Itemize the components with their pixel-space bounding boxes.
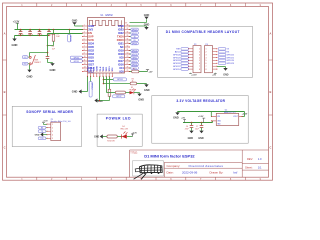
capacitor C1 1uF xyxy=(46,46,56,63)
+3.3V power flag top left xyxy=(13,20,20,29)
svg-text:GND: GND xyxy=(223,75,228,77)
svg-text:11: 11 xyxy=(84,59,86,61)
U1 right net label tags lower group xyxy=(130,49,139,70)
svg-text:3V3: 3V3 xyxy=(88,27,93,31)
svg-text:35: 35 xyxy=(126,35,128,37)
svg-text:4: 4 xyxy=(52,135,53,137)
resistor F1 on 5V line xyxy=(130,69,148,73)
section box: POWER LED xyxy=(97,114,142,146)
resistor R3 470R xyxy=(107,135,122,143)
svg-text:GND: GND xyxy=(72,89,78,93)
svg-text:CMD: CMD xyxy=(97,66,99,71)
svg-text:D1 MINI form factor ESP32: D1 MINI form factor ESP32 xyxy=(144,154,195,159)
U1 right net label tags upper group xyxy=(130,28,139,45)
svg-text:3.3V VOLTAGE REGULATOR: 3.3V VOLTAGE REGULATOR xyxy=(176,99,225,103)
connector H1 (P3) body xyxy=(193,44,201,73)
svg-text:TXD0: TXD0 xyxy=(117,34,124,38)
wire bottom pin8 down xyxy=(109,77,111,90)
ground left arrow mid xyxy=(94,98,103,102)
svg-text:TITLE:: TITLE: xyxy=(130,151,138,154)
svg-text:GPIO25: GPIO25 xyxy=(173,57,181,59)
svg-text:IO16: IO16 xyxy=(118,62,124,66)
svg-text:32: 32 xyxy=(126,45,128,47)
svg-text:IO19: IO19 xyxy=(118,48,124,52)
svg-text:C2: C2 xyxy=(19,30,21,32)
svg-text:GND: GND xyxy=(144,14,150,17)
svg-text:GND: GND xyxy=(72,20,78,23)
H1 pin 6 xyxy=(188,63,200,65)
svg-text:IO35: IO35 xyxy=(88,45,94,49)
wire H2 pin7 to ground xyxy=(217,67,225,69)
svg-text:GPIO21: GPIO21 xyxy=(226,57,234,59)
svg-text:1: 1 xyxy=(199,49,200,51)
svg-text:SVN: SVN xyxy=(88,38,93,42)
svg-text:4: 4 xyxy=(206,57,207,59)
net tag RST xyxy=(176,48,188,51)
svg-text:Sheet:: Sheet: xyxy=(245,166,253,170)
svg-text:38: 38 xyxy=(126,24,128,26)
svg-text:A: A xyxy=(4,32,6,36)
svg-text:+5V: +5V xyxy=(212,75,216,77)
+3.3V flag above P1 pin1 xyxy=(42,121,48,125)
svg-text:REV:: REV: xyxy=(247,157,253,161)
svg-text:GPIO26: GPIO26 xyxy=(173,54,181,56)
svg-text:ADC0: ADC0 xyxy=(175,50,181,53)
ground under C1 xyxy=(50,63,56,73)
capacitor C6 47uF xyxy=(185,122,194,131)
net tag RX on P1 xyxy=(38,126,47,129)
svg-text:6: 6 xyxy=(199,63,200,65)
svg-text:NC: NC xyxy=(120,45,124,49)
svg-text:13: 13 xyxy=(84,66,86,68)
section box: SONOFF SERIAL HEADER xyxy=(12,106,81,146)
svg-text:Company:: Company: xyxy=(167,164,181,168)
+5V power flag second xyxy=(198,116,205,123)
svg-text:9: 9 xyxy=(84,52,85,54)
net tag TX on P1 xyxy=(38,130,47,133)
svg-text:RST: RST xyxy=(176,49,181,51)
svg-text:Date:: Date: xyxy=(167,170,174,174)
svg-text:+3.3V: +3.3V xyxy=(198,116,204,118)
svg-text:POWER LED: POWER LED xyxy=(106,116,131,120)
resistor R5 vertical xyxy=(99,89,111,101)
svg-text:5: 5 xyxy=(84,38,85,40)
ground under C7 xyxy=(198,131,204,140)
sheet frame outer border xyxy=(3,3,273,180)
svg-text:GPIO21: GPIO21 xyxy=(132,43,138,45)
vertical net tag below U1 xyxy=(89,77,93,98)
U1 right pins xyxy=(117,24,130,73)
svg-text:VOUT: VOUT xyxy=(233,116,238,118)
svg-text:IO32: IO32 xyxy=(88,48,94,52)
svg-text:GND: GND xyxy=(188,137,194,140)
svg-text:RST: RST xyxy=(24,57,27,59)
svg-text:kxf: kxf xyxy=(234,170,238,174)
svg-text:C5: C5 xyxy=(48,30,50,32)
H2 pin 1 xyxy=(206,48,218,50)
svg-text:GPIO22: GPIO22 xyxy=(132,33,138,35)
svg-text:C: C xyxy=(269,146,271,150)
svg-text:IO5: IO5 xyxy=(120,55,125,59)
H2 pin 2 xyxy=(206,51,218,53)
LED D4 YELLOW xyxy=(120,126,132,139)
svg-text:2: 2 xyxy=(199,51,200,53)
+3.3V flag below H1 xyxy=(189,73,197,77)
svg-text:IO4: IO4 xyxy=(120,66,125,70)
P1 pin 3 xyxy=(47,131,54,133)
node EN junction xyxy=(47,33,55,47)
resistor R4 1k xyxy=(130,78,146,84)
svg-text:26: 26 xyxy=(126,66,128,68)
svg-text:12: 12 xyxy=(84,63,86,65)
svg-text:EN: EN xyxy=(88,31,92,35)
net tag GPIO23 xyxy=(218,62,234,65)
svg-text:29: 29 xyxy=(126,56,128,58)
svg-text:R3 470R: R3 470R xyxy=(107,141,115,143)
ground regulator left xyxy=(173,112,180,120)
+5V power flag xyxy=(181,118,186,123)
svg-text:C3: C3 xyxy=(29,30,31,32)
svg-text:GND: GND xyxy=(27,74,33,78)
svg-text:Drawn By:: Drawn By: xyxy=(210,170,224,174)
H2 pin 6 xyxy=(206,63,218,65)
net tag ADC0 xyxy=(175,50,189,53)
net tag GPIO0 xyxy=(113,78,126,81)
svg-text:36: 36 xyxy=(126,31,128,33)
svg-text:GND: GND xyxy=(173,117,179,120)
ground flag top right #2 xyxy=(130,24,150,30)
svg-text:14: 14 xyxy=(84,70,86,72)
svg-text:GND: GND xyxy=(94,137,99,139)
capacitor C3 100nF xyxy=(28,29,34,37)
wire reset button net xyxy=(30,52,48,54)
net tag GPIO22 xyxy=(218,53,234,56)
svg-text:100nF: 100nF xyxy=(28,34,34,36)
P1 pin 2 xyxy=(47,127,54,129)
ground under R4 xyxy=(144,84,150,92)
svg-text:10: 10 xyxy=(84,56,86,58)
svg-text:3: 3 xyxy=(52,131,53,133)
svg-text:34: 34 xyxy=(126,38,128,40)
svg-text:39: 39 xyxy=(125,23,127,25)
net tag GPIO26 xyxy=(173,53,189,56)
svg-text:10uF: 10uF xyxy=(195,128,199,130)
net tag RST upper xyxy=(22,56,29,59)
regulator U2 AMS1117-3.3 xyxy=(211,109,243,125)
net tag GPIO15 left of U1 xyxy=(70,60,82,63)
wire bottom pin1 to ground xyxy=(81,77,87,92)
svg-text:A: A xyxy=(269,32,271,36)
svg-text:GPIO27: GPIO27 xyxy=(173,66,181,68)
svg-text:GND: GND xyxy=(88,24,94,28)
net tag RX xyxy=(218,50,230,53)
svg-text:2: 2 xyxy=(52,127,53,129)
svg-text:GND: GND xyxy=(12,43,18,47)
svg-text:Overmind Associates: Overmind Associates xyxy=(189,164,224,168)
svg-text:IO25: IO25 xyxy=(88,55,94,59)
svg-text:8: 8 xyxy=(84,49,85,51)
P1 pin 4 xyxy=(47,134,54,136)
svg-text:8: 8 xyxy=(199,69,200,71)
wire regulator top rail xyxy=(178,112,245,117)
svg-text:GPIO23: GPIO23 xyxy=(132,29,138,31)
svg-text:33: 33 xyxy=(126,42,128,44)
GND flag above U1 left xyxy=(72,20,83,26)
svg-text:+5V: +5V xyxy=(149,71,153,73)
svg-text:31: 31 xyxy=(126,49,128,51)
svg-text:C4: C4 xyxy=(38,30,40,32)
net tag GPIO14 xyxy=(173,68,189,71)
svg-text:7: 7 xyxy=(84,45,85,47)
net tag GPIO25 xyxy=(173,56,189,59)
U1 bottom pins xyxy=(86,66,114,77)
svg-text:5: 5 xyxy=(199,60,200,62)
svg-text:ESP32: ESP32 xyxy=(106,15,114,17)
title block xyxy=(130,150,269,177)
svg-text:IO27: IO27 xyxy=(88,62,94,66)
svg-text:IO23: IO23 xyxy=(118,27,124,31)
svg-text:IO33: IO33 xyxy=(88,52,94,56)
+5V flag below H2 xyxy=(212,73,216,77)
svg-text:+3.3V: +3.3V xyxy=(132,133,138,135)
svg-text:3: 3 xyxy=(84,31,85,33)
svg-text:100nF: 100nF xyxy=(37,34,43,36)
capacitor C5 100nF xyxy=(47,29,53,37)
svg-text:GPIO18: GPIO18 xyxy=(132,54,138,56)
svg-text:5: 5 xyxy=(206,60,207,62)
svg-text:RST: RST xyxy=(24,63,27,65)
svg-text:RXD0: RXD0 xyxy=(117,38,124,42)
svg-text:GPIO12: GPIO12 xyxy=(91,83,93,90)
svg-text:F1: F1 xyxy=(133,69,135,71)
net tag GPIO2 xyxy=(113,95,125,98)
svg-text:6: 6 xyxy=(206,63,207,65)
svg-text:GPIO19: GPIO19 xyxy=(226,60,234,62)
net tag GPIO32 xyxy=(173,62,189,65)
wire regulator input rail xyxy=(183,121,213,123)
section box: D1 MINI COMPATIBLE HEADER LAYOUT xyxy=(158,26,253,77)
svg-text:IO22: IO22 xyxy=(118,31,124,35)
H1 pin 5 xyxy=(188,60,200,62)
svg-text:47uF: 47uF xyxy=(185,128,189,130)
H2 pin 7 xyxy=(206,66,218,68)
svg-text:25: 25 xyxy=(126,70,128,72)
push button SW1 RESET xyxy=(29,53,41,70)
svg-text:D4: D4 xyxy=(122,126,124,128)
svg-text:6: 6 xyxy=(84,42,85,44)
svg-text:7: 7 xyxy=(199,66,200,68)
H1 pin 2 xyxy=(188,51,200,53)
net tag GPIO19 xyxy=(218,59,234,62)
svg-text:+3.3V: +3.3V xyxy=(242,114,248,116)
svg-text:CLK: CLK xyxy=(100,66,102,71)
svg-text:GPIO32: GPIO32 xyxy=(173,63,181,65)
svg-text:1.0: 1.0 xyxy=(258,157,262,161)
H1 pin 4 xyxy=(188,57,200,59)
ground flag top right #1 xyxy=(130,14,150,23)
capacitor C4 100nF xyxy=(37,29,43,37)
svg-text:7: 7 xyxy=(206,66,207,68)
frame zone ticks and labels xyxy=(3,3,273,181)
svg-text:GPIO17: GPIO17 xyxy=(132,61,138,63)
svg-text:27: 27 xyxy=(126,63,128,65)
svg-text:IO21: IO21 xyxy=(118,41,124,45)
svg-text:GND: GND xyxy=(144,89,150,92)
svg-text:37: 37 xyxy=(126,28,128,30)
svg-text:GPIO33: GPIO33 xyxy=(173,60,181,62)
title block fields xyxy=(167,157,263,174)
wire regulator gnd into rail xyxy=(210,112,212,117)
svg-text:4: 4 xyxy=(199,57,200,59)
H2 pin 5 xyxy=(206,60,218,62)
svg-text:2: 2 xyxy=(84,28,85,30)
svg-text:5: 5 xyxy=(52,138,53,140)
svg-text:4: 4 xyxy=(84,35,85,37)
svg-text:GPIO13: GPIO13 xyxy=(74,57,80,59)
svg-text:RESET: RESET xyxy=(34,62,41,64)
ground under C6 xyxy=(188,131,194,140)
svg-text:IO17: IO17 xyxy=(118,59,124,63)
H2 pin 4 xyxy=(206,57,218,59)
svg-text:GPIO2: GPIO2 xyxy=(116,96,122,98)
svg-text:SONOFF SERIAL HEADER: SONOFF SERIAL HEADER xyxy=(26,110,73,114)
ground under caps xyxy=(12,39,16,42)
svg-text:GND: GND xyxy=(50,68,56,72)
ground left arrow bottom pin1 xyxy=(79,89,82,93)
LED D2 YELLOW xyxy=(126,87,140,94)
antenna meander of U1 xyxy=(89,20,121,28)
svg-text:GPIO14: GPIO14 xyxy=(173,69,181,71)
svg-text:GPIO35: GPIO35 xyxy=(69,35,71,42)
wire 3.3V rail xyxy=(15,29,83,31)
svg-text:D1 MINI COMPATIBLE HEADER LAYO: D1 MINI COMPATIBLE HEADER LAYOUT xyxy=(166,30,240,34)
ground under SW1 xyxy=(27,70,31,73)
svg-text:IO0: IO0 xyxy=(41,138,44,140)
ground below H2 xyxy=(223,68,228,77)
svg-text:GPIO0: GPIO0 xyxy=(117,79,123,81)
svg-text:GND: GND xyxy=(35,134,40,136)
svg-text:GND: GND xyxy=(118,24,124,28)
svg-text:28: 28 xyxy=(126,59,128,61)
svg-text:8: 8 xyxy=(206,69,207,71)
svg-text:GPIO5: GPIO5 xyxy=(132,57,137,59)
svg-text:GND: GND xyxy=(198,137,204,140)
resistor R6 xyxy=(115,91,125,94)
connector H2 (P4) body xyxy=(205,44,213,73)
svg-text:GND: GND xyxy=(98,101,103,103)
capacitor C7 10uF xyxy=(195,122,203,131)
svg-text:TX: TX xyxy=(134,36,136,38)
net tag GPIO21 xyxy=(218,56,234,59)
H2 pin 8 xyxy=(206,69,218,71)
connector P1 serial header xyxy=(51,119,71,141)
svg-text:GPIO22: GPIO22 xyxy=(226,54,234,56)
svg-text:2: 2 xyxy=(206,51,207,53)
U1 left pins xyxy=(82,24,94,73)
svg-text:1: 1 xyxy=(52,124,53,126)
H1 pin 8 xyxy=(188,69,200,71)
wire EN net xyxy=(48,34,83,57)
sheet frame inner border xyxy=(7,7,269,178)
section box: 3.3V VOLTAGE REGULATOR xyxy=(152,96,248,144)
svg-text:1/1: 1/1 xyxy=(258,166,262,170)
svg-text:RX: RX xyxy=(134,40,136,42)
svg-text:GPIO23: GPIO23 xyxy=(226,63,234,65)
net tag GPIO13 left of U1 xyxy=(70,56,82,59)
svg-text:100nF: 100nF xyxy=(18,34,24,36)
ground left arrow on P1 pin4 xyxy=(35,132,47,136)
H2 pin 3 xyxy=(206,54,218,56)
svg-text:B: B xyxy=(269,90,271,94)
svg-text:IO18: IO18 xyxy=(118,52,124,56)
svg-text:1: 1 xyxy=(206,49,207,51)
resistor R1 10K pullup xyxy=(52,29,60,46)
net tag GPIO27 xyxy=(173,65,189,68)
svg-text:2022-09-06: 2022-09-06 xyxy=(182,170,198,174)
svg-text:+3.3V: +3.3V xyxy=(191,75,197,77)
wire bottom pin6 down xyxy=(103,77,131,85)
net label tag vertical on 3.3V rail xyxy=(68,29,71,42)
P1 pin 1 xyxy=(47,124,54,126)
wire bottom pin7 down to LED row xyxy=(106,77,108,93)
svg-text:GND: GND xyxy=(138,99,144,102)
+5V power flag right of U1 xyxy=(146,70,153,74)
+3.3V flag power led xyxy=(131,133,137,137)
wire bottom pin5 to ground xyxy=(97,77,100,101)
H1 pin 1 xyxy=(188,48,200,50)
ground right of LED D2 xyxy=(137,93,144,102)
svg-text:SVP: SVP xyxy=(88,34,93,38)
svg-text:1: 1 xyxy=(84,24,85,26)
ground left arrow power led xyxy=(94,134,107,138)
svg-text:3: 3 xyxy=(199,54,200,56)
wire LED row xyxy=(107,92,116,94)
svg-text:IO0: IO0 xyxy=(120,69,125,73)
svg-text:30: 30 xyxy=(126,52,128,54)
svg-text:IO26: IO26 xyxy=(88,59,94,63)
svg-text:IO34: IO34 xyxy=(88,41,94,45)
op-amp U1 ESP32 module body xyxy=(88,15,125,73)
svg-text:GPIO15: GPIO15 xyxy=(74,61,80,63)
svg-text:GPIO19: GPIO19 xyxy=(132,50,138,52)
H1 pin 3 xyxy=(188,54,200,56)
svg-text:3: 3 xyxy=(206,54,207,56)
svg-text:B: B xyxy=(4,90,6,94)
svg-text:YELLOW: YELLOW xyxy=(120,129,128,131)
wire caps ground bus xyxy=(15,36,50,39)
net tag IO0 on P1 xyxy=(38,137,47,140)
H1 pin 7 xyxy=(188,66,200,68)
P1 pin 5 xyxy=(47,138,54,140)
net tag RST lower xyxy=(22,62,29,65)
capacitor C2 100nF xyxy=(18,29,24,37)
net tag GPIO33 xyxy=(173,59,189,62)
svg-text:+5V: +5V xyxy=(181,118,185,120)
net tag TX xyxy=(218,48,229,51)
company logo box xyxy=(133,161,164,180)
svg-text:+3.3V: +3.3V xyxy=(43,121,49,123)
svg-text:C: C xyxy=(4,146,6,150)
svg-text:GPIO16: GPIO16 xyxy=(132,64,138,66)
